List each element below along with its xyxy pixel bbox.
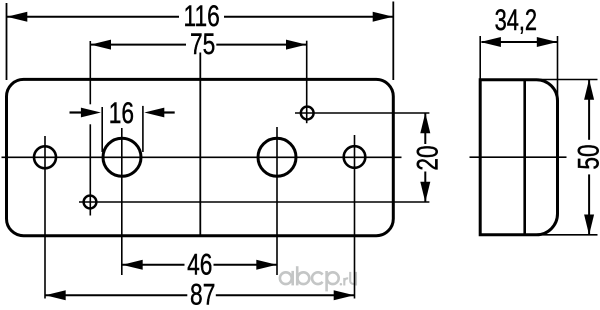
svg-text:16: 16 [109, 96, 134, 130]
svg-text:75: 75 [190, 27, 215, 61]
svg-text:50: 50 [571, 144, 600, 169]
centerline main view [2, 156, 402, 158]
side view outline [480, 80, 557, 235]
hole H4 small right circle [344, 146, 366, 168]
dim 46 arrow left [122, 260, 143, 270]
dim 116 line [7, 16, 179, 18]
hole H3 big circle [258, 138, 296, 176]
dim 46 line [122, 264, 185, 266]
dim 34,2 extension line right [557, 36, 559, 100]
main body outline [7, 79, 394, 235]
crosshair A vertical line / 75-dim right extension [306, 41, 308, 124]
dim 75 arrow left [91, 40, 112, 50]
dim 50 extension line top [520, 79, 598, 81]
svg-text:20: 20 [411, 145, 445, 170]
dim 87 line [45, 294, 187, 296]
watermark logo circle letters abcp.ru [280, 266, 339, 291]
dim 75 line [90, 44, 186, 46]
crosshair hole A upper right [301, 107, 314, 120]
hole H1 small left circle [34, 146, 56, 168]
crosshair B vertical line / 75-dim left extension [89, 41, 91, 104]
hole H1 vertical centerline / extension to 87 dim [44, 136, 46, 299]
hole H3 vertical centerline / extension to 46 dim [276, 127, 278, 275]
crosshair B horizontal line / 20-dim bottom extension [79, 201, 429, 203]
side view centerline [470, 156, 567, 158]
dim 46 arrow right [256, 260, 277, 270]
dim 116 extension line left [6, 3, 8, 80]
dim 16 extension line right [142, 106, 144, 152]
dim 16 extension line left [101, 107, 103, 152]
dim 34,2 line [482, 41, 558, 43]
hole H2 big circle d16 [103, 138, 141, 176]
svg-text:46: 46 [187, 248, 212, 282]
watermark .ru drawn glyphs [340, 272, 356, 286]
svg-text:87: 87 [190, 278, 215, 310]
side view lens split inner line [523, 80, 526, 235]
dim 20 arrow down [420, 182, 430, 203]
crosshair hole B lower left [84, 196, 97, 209]
dim 34,2 extension line left [479, 36, 481, 79]
dim 20 arrow up [420, 113, 430, 134]
part vertical axis line [199, 53, 201, 236]
crosshair A horizontal line / 20-dim top extension [295, 112, 429, 114]
dim 16 arrow left (points right) [81, 108, 101, 118]
dim 50 arrow up [584, 79, 594, 100]
hole H2 vertical centerline / extension to 46 dim [121, 128, 123, 275]
dim 116 arrow right [373, 12, 394, 22]
svg-text:34,2: 34,2 [495, 5, 537, 37]
dim 50 arrow down [584, 215, 594, 236]
dim 116 extension line right [392, 2, 394, 81]
dim 87 arrow left [45, 290, 65, 300]
dim 50 line [588, 80, 590, 140]
dim 34,2 arrow right [537, 37, 558, 47]
dim 34,2 arrow left [480, 37, 501, 47]
dim 116 arrow left [7, 12, 28, 22]
dim 20 line [424, 113, 426, 144]
dim 16 arrow right (points left) [144, 108, 164, 118]
dim 87 arrow right [334, 290, 355, 300]
dim 75 arrow right [286, 40, 307, 50]
hole H4 vertical centerline / extension to 87 dim [354, 135, 356, 299]
dim 50 extension line bottom [520, 234, 598, 236]
